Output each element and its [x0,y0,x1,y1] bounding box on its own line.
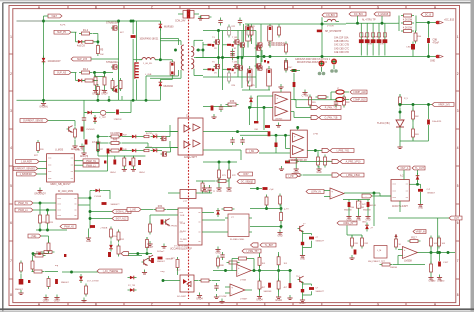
svg-text:C?4148: C?4148 [94,196,102,198]
wire tl431 top stub [399,94,401,97]
svg-text:D7D: D7D [380,44,385,46]
resistor R74 [85,284,88,297]
wire frame stub top [17,20,44,22]
svg-text:ACPL/J3T?: ACPL/J3T? [184,155,198,159]
svg-text:FL-REF-CMSL: FL-REF-CMSL [230,239,245,241]
junction sb4 [321,55,323,57]
svg-text:GND: GND [86,241,91,243]
wire t1 b2h [150,77,181,79]
ground hk [80,150,89,158]
wire flag N$1 [44,15,49,17]
wire r17 v [415,31,417,32]
label 4u5 [77,45,85,48]
wire u5 r1 [202,212,214,214]
svg-text:GND: GND [430,61,435,63]
resistor R6d [119,78,122,91]
ground u7 b [294,166,299,174]
svg-text:3: 3 [10,109,12,113]
wire lad v1 [259,266,261,281]
svg-text:8: 8 [457,293,459,297]
wire u11 i2 [324,196,330,198]
capacitor C27 [334,99,338,107]
resistor R gd a [144,135,149,137]
net flag OUT_ADJ [397,166,410,170]
resistor R51 [399,95,402,108]
label C35b [316,291,325,293]
wire c32 up [439,253,441,262]
capacitor C gd3 [120,148,122,151]
wire comp supply [294,99,336,101]
wire r64 v [358,200,360,202]
ground u6 top [278,84,283,89]
label C18 [100,228,108,230]
junction stub b [381,22,383,24]
label u5pin2 [180,222,186,225]
wire r39 up [146,237,148,239]
svg-text:GND: GND [205,192,210,194]
net flag N$1 [48,14,62,18]
svg-text:COMP_B1D: COMP_B1D [353,100,366,102]
wire bl row272 [62,271,98,273]
svg-text:p-TV: p-TV [284,209,289,211]
svg-text:C9B: C9B [433,40,438,42]
wire row112c [120,112,132,114]
capacitor C24 [161,220,164,225]
svg-text:SM4007?: SM4007? [111,204,121,206]
wire u1 in1 [39,161,47,163]
wire q4 src [237,45,239,58]
wire r29 dn [47,226,49,231]
wire q14 br1 [303,283,312,285]
opto U3 amp1 [193,124,200,131]
resistor R19 [74,127,77,140]
wire tl gnd [399,127,401,144]
opto U3 led1 [184,125,190,132]
wire sr low [242,89,270,91]
svg-text:GM4007: GM4007 [427,192,436,194]
svg-text:GND: GND [300,259,305,261]
capacitor C5 t [238,18,242,26]
wire u14 i1 [225,286,230,288]
svg-text:SUP_P5: SUP_P5 [57,32,67,34]
wire u14 i2 [225,292,230,294]
resistor R6 [94,75,97,88]
svg-text:R36: R36 [230,100,235,103]
wire lad u2 [278,252,280,256]
net flag O_FAN [319,116,341,120]
wire supply_p5 rail [97,34,99,45]
svg-text:SM4648: SM4648 [344,210,352,212]
diode D10 [93,115,97,124]
capacitor C_JR [254,121,258,123]
wire tl r5253 [412,120,414,129]
junction row253 [137,252,139,254]
wire row112 [84,112,87,114]
net flag CN_B15 [322,13,337,17]
resistor R44 [343,95,346,108]
zener D18 [19,279,24,285]
wire u7 lv [285,135,287,148]
transformer T1 [181,45,194,70]
ground u2 bot [86,235,91,243]
wire ind v2 [159,29,161,60]
svg-text:R_T/1: R_T/1 [152,149,158,151]
label u8 bot [392,205,408,208]
junction q5d [217,56,219,58]
svg-text:VREF_IN: VREF_IN [416,232,426,234]
capacitor C23 [240,137,244,145]
capacitor C small2 [232,44,234,47]
net label PWM_H1 box [83,159,99,163]
net flag LDRV_IN [306,190,324,194]
capacitor C22 [230,137,234,145]
resistor R2 [83,40,96,43]
resistor R45 [316,96,329,99]
svg-text:470uF: 470uF [433,43,440,45]
label w2 [123,149,128,151]
svg-text:GND4: GND4 [275,300,282,302]
wire q5 drain [218,58,220,65]
label u8 top [400,175,404,178]
wire supply1 a [71,72,77,74]
label v40 [42,222,47,224]
ground bl3 [54,295,61,303]
wire u9 out [418,252,456,254]
label v44 [288,67,294,69]
svg-text:GND?: GND? [54,301,61,303]
capacitor C4 t [218,18,222,26]
label ptv [284,209,289,211]
svg-text:BL B3C330MULL: BL B3C330MULL [268,43,287,45]
svg-text:GND: GND [440,281,445,283]
wire gd row156 [110,155,146,157]
wire undl h [347,234,362,236]
arrow flag F1 [311,105,319,109]
svg-text:4.2K/2W: 4.2K/2W [403,27,413,30]
screenshot right gray margin [471,0,474,312]
resistor R34c [218,168,221,181]
resistor R20 [37,140,40,153]
wire ipreb dn [259,253,261,257]
wire comb v2 [135,80,137,101]
wire rpar join [397,22,399,24]
label v20 [232,175,237,177]
ground lad1 [256,294,263,302]
capacitor C row253 [158,257,163,260]
label C10 [114,119,123,121]
wire rpar left [398,16,400,32]
wire u1 o3 [74,170,107,172]
transistor Q12 [164,219,170,226]
label v38 [113,236,118,238]
wire c1 bot2 [132,60,134,101]
wire u12 l [163,280,180,282]
capacitor C s1 [115,89,117,92]
label d20 [128,285,135,287]
resistor R84 [265,195,268,208]
IC U6 comparator [273,92,291,120]
wire c42 v [289,271,291,284]
svg-text:GND4: GND4 [196,299,203,301]
label gnd4a [110,172,116,174]
capacitor C31 [418,189,423,192]
svg-text:T_B3: T_B3 [232,62,238,64]
wire c15 up [114,156,116,159]
label D5 [164,85,174,88]
wire supply_p5 a [71,31,77,33]
svg-text:L_05B: L_05B [145,74,152,76]
via pad TP2 gnd [331,65,338,73]
capacitor C25 [220,252,224,260]
wire u3 mid [203,161,237,163]
u7 amp1 [293,133,304,142]
svg-text:L?35B?: L?35B? [240,299,248,301]
label v42 [100,149,105,151]
capacitor C26 [265,125,270,128]
wire supply1 c [94,80,98,82]
svg-text:L?35B: L?35B [240,279,247,281]
resistor R89 [285,42,288,55]
arrow flag F4 [332,159,340,163]
wire u14 o [245,289,252,291]
svg-text:R_PK: R_PK [60,25,66,27]
svg-text:T_B3: T_B3 [232,37,238,39]
wire trio h [250,208,281,210]
resistor R47 [287,160,300,163]
svg-text:I_PRE_1/B10: I_PRE_1/B10 [346,175,361,177]
junction gd c [97,149,99,151]
capacitor C16 [138,160,141,165]
wire supply1 b [93,72,114,74]
label v35 [361,207,366,209]
wire gd row156v [98,155,110,157]
svg-text:1N4148-D0?: 1N4148-D0? [48,61,62,63]
wire u3 in2 [170,147,178,149]
capacitor C toprt2 [293,82,296,87]
wire hk top3 [118,62,120,100]
svg-text:F: F [321,5,323,9]
svg-text:GND(H): GND(H) [80,156,89,158]
wire gd v1 [97,134,99,156]
junction u7 o1 [314,149,316,151]
wire q3 src [218,45,220,58]
svg-text:LM2903: LM2903 [275,119,283,121]
resistor R14 [401,14,414,17]
junction hv b [130,20,132,22]
IC U4 small opto [180,190,196,199]
svg-text:1: 1 [10,35,12,39]
resistor RS2 big [268,24,273,48]
wire tl c30 [428,105,430,120]
net flag P_FAN [319,106,341,110]
capacitor C28 [268,131,271,136]
svg-text:-: - [404,254,405,258]
net flag DC_SENSE [237,180,255,184]
label c41 [264,291,273,293]
label R20 [34,155,39,157]
capacitor C32 [438,262,441,267]
wire q13 br2 [303,247,312,249]
svg-text:8: 8 [10,293,12,297]
svg-text:CON_24V: CON_24V [175,21,186,23]
svg-text:U_MOS: U_MOS [55,150,64,152]
svg-text:1-DB: 1-DB [180,215,185,217]
resistor R79 [258,255,261,268]
wire r34 up [218,162,220,170]
wire t1 ct [194,57,238,59]
diode D4 MUR160 [159,22,163,31]
ground bl2 [43,295,50,303]
svg-text:-: - [331,194,332,198]
svg-text:C4B C6B C7A: C4B C6B C7A [334,40,349,43]
label u5 bot [170,248,192,251]
label v9 [232,26,237,28]
svg-text:R_T/1: R_T/1 [152,134,158,136]
capacitor C ne [38,252,41,254]
wire u8 i1 [403,170,405,180]
wire lad v2 [278,265,280,280]
resistor R90 [285,60,288,73]
label 47r a [146,133,153,135]
diode D19 [79,274,83,283]
svg-text:1_B/D/B/R2: 1_B/D/B/R2 [20,174,33,176]
wire cs gnd [74,140,76,143]
wire r2829 bus [36,229,67,231]
wire trio top [250,188,262,190]
resistor R71 [42,251,55,254]
wire gd2 [139,136,145,138]
wire r34 dn [218,179,220,186]
wire run h [388,217,449,219]
label u13 [240,279,247,281]
svg-text:GND: GND [316,172,321,174]
wire sr v2 [261,50,263,62]
label C1 [140,39,159,41]
svg-text:1 P/B: 1 P/B [313,134,319,136]
junction u6 in2 [248,106,250,108]
wire gd7v2 [167,151,171,153]
svg-text:AL 4 TRU TP: AL 4 TRU TP [362,19,376,22]
svg-text:GND: GND [418,208,423,210]
capacitor C19 [108,252,111,257]
capacitor C12 big [85,140,88,145]
net flag IPRE3 [340,173,364,177]
wire u6 o2b [293,112,295,118]
label capacitor table [334,37,349,54]
ground u3 a [202,185,207,193]
resistor R60 [430,262,433,275]
svg-text:COMP_A1D: COMP_A1D [353,91,366,94]
wire u6 o2a [291,111,294,113]
resistor R61 [351,236,354,249]
wire r39 dn [146,248,148,254]
wire r49 up [317,151,319,157]
junction cnb15 [321,23,323,25]
svg-text:4: 4 [10,146,12,150]
wire u7 gnd stub [295,158,297,166]
label v11 [232,85,237,87]
wire sr v4 [260,57,262,66]
wire r64 g [358,209,360,214]
junction u7 a [275,134,277,136]
svg-text:I_SN: I_SN [249,151,255,153]
ground u7 a [279,166,284,171]
resistor R6b [103,75,106,88]
wire d5 v [159,80,161,82]
wire toprt v [293,73,295,82]
label v23 [318,161,323,163]
wire q5 src [218,69,220,77]
wire u11 fb [343,199,370,201]
label c4148 [94,196,102,198]
wire c1 top [132,21,134,34]
wire d13 rv [109,191,111,200]
wire u6 in2 [250,107,273,109]
wire tl431 v1 [399,108,401,119]
resistor R gate3 [208,68,212,70]
inductor L1 [139,57,158,59]
wire u6 o1a [291,99,296,101]
ground top-center [198,16,203,21]
wire q6 drain [237,58,239,65]
label f1 [337,88,340,90]
svg-text:I_AC_?SENSE: I_AC_?SENSE [102,270,118,273]
label v10 [251,26,256,28]
svg-text:GND?: GND? [299,303,306,305]
wire r30 dn [48,252,50,254]
resistor R36 [226,100,239,106]
wire hk c12b [83,145,85,150]
label v18 [255,129,260,131]
svg-text:PWM_L1: PWM_L1 [18,210,28,212]
junction r29b [46,229,48,231]
capacitor C33 [354,250,357,255]
label Q3 [212,37,215,39]
label 17v [219,296,226,298]
net flag DC_OUT_top [421,13,433,17]
label v41 [50,222,55,224]
inductor L2 [324,19,339,21]
wire u8 i2 [417,170,419,175]
label LED [407,47,412,49]
capacitor C3 [230,52,234,60]
label v43 [40,149,45,151]
ground br b [437,275,442,283]
wire u8 rv2 [420,192,422,202]
svg-text:D7A: D7A [362,36,367,39]
resistor R52 [412,109,415,122]
net flag TLBR [260,243,276,247]
label Q5 [212,62,215,64]
wire u11 i1 [324,190,330,192]
wire row112d [130,100,132,112]
net flag VREF_2V5 [432,103,454,107]
svg-text:IR_2110_MOS: IR_2110_MOS [58,191,73,193]
label u10 [368,261,386,263]
svg-text:GND4: GND4 [110,172,116,174]
transistor Q1 BSS84 [111,25,117,30]
diode D1 [76,40,85,44]
ground s1 a [92,88,99,96]
svg-text:D7C: D7C [374,37,379,39]
net flag VREF_IN [413,230,426,234]
label q17 [268,43,287,45]
svg-text:JC?_1/T5W: JC?_1/T5W [87,281,99,283]
wire gate stub4 [223,68,228,70]
label u3 top [186,116,190,118]
label 470u [433,43,440,45]
wire bridge left v [202,42,204,58]
